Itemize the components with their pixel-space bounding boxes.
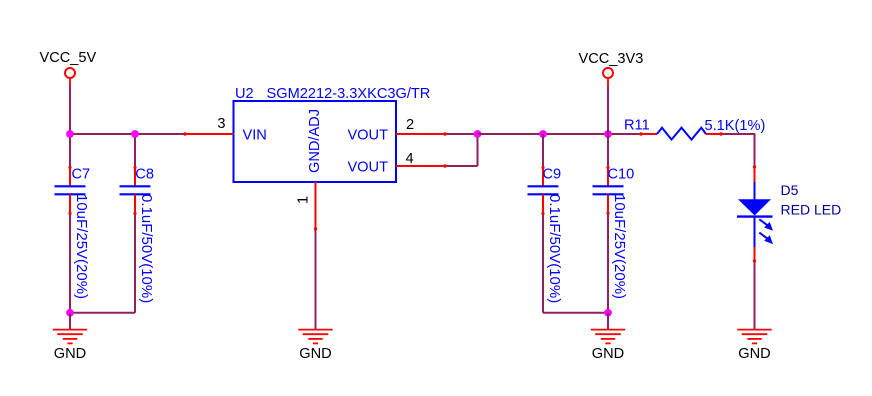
junction pin2/pin4: [474, 130, 482, 138]
svg-text:4: 4: [406, 151, 414, 167]
wire to left ground: [69, 313, 71, 330]
wire left rail to pin 3: [70, 133, 184, 135]
svg-text:VCC_3V3: VCC_3V3: [579, 51, 644, 67]
wire down to C9: [542, 134, 544, 166]
svg-text:VCC_5V: VCC_5V: [40, 50, 97, 66]
svg-text:10uF/25V(20%): 10uF/25V(20%): [611, 194, 628, 299]
wire C7 to ground rail: [69, 215, 71, 313]
ground GND far right: [737, 330, 771, 362]
wire left ground rail: [70, 312, 135, 314]
capacitor C8: [120, 166, 151, 215]
wire down to C10: [607, 134, 609, 166]
junction right rail / C10: [604, 130, 612, 138]
svg-text:C7: C7: [72, 167, 91, 183]
capacitor C7: [55, 166, 86, 215]
svg-text:10uF/25V(20%): 10uF/25V(20%): [73, 194, 90, 299]
svg-text:1: 1: [296, 196, 312, 204]
wire pin 2 to junction: [446, 133, 478, 135]
LED D5: [737, 165, 773, 262]
wire C10 to ground rail: [607, 215, 609, 313]
svg-text:GND/ADJ: GND/ADJ: [307, 109, 323, 173]
junction left ground rail: [66, 309, 74, 317]
pin 2 of U2: [396, 132, 447, 135]
power flag VCC_3V3: [579, 51, 644, 86]
ground GND left: [53, 330, 87, 362]
svg-text:RED LED: RED LED: [781, 201, 842, 217]
svg-text:GND: GND: [592, 346, 624, 362]
ground GND middle: [298, 330, 332, 362]
svg-text:GND: GND: [738, 346, 770, 362]
wire pin 4 loop vertical: [477, 134, 479, 166]
junction at left rail / C7: [66, 130, 74, 138]
wire VCC_3V3 drop: [607, 86, 609, 135]
wire down to C8: [134, 134, 136, 166]
wire right ground rail: [543, 312, 608, 314]
svg-text:2: 2: [406, 117, 414, 133]
svg-text:VOUT: VOUT: [347, 127, 388, 143]
wire corner down to LED: [754, 133, 756, 166]
svg-text:D5: D5: [781, 182, 799, 198]
svg-text:C8: C8: [135, 167, 154, 183]
svg-text:5.1K(1%): 5.1K(1%): [705, 118, 766, 134]
pin 1 of U2: [314, 182, 317, 231]
pin 3 of U2: [183, 132, 233, 135]
svg-text:VOUT: VOUT: [347, 159, 388, 175]
svg-text:0.1uF/50V(10%): 0.1uF/50V(10%): [546, 194, 563, 303]
capacitor C9: [528, 166, 559, 215]
svg-text:SGM2212-3.3XKC3G/TR: SGM2212-3.3XKC3G/TR: [267, 86, 431, 102]
wire right rail: [478, 133, 641, 135]
power flag VCC_5V: [40, 50, 97, 86]
resistor R11: [639, 128, 722, 140]
wire C9 to ground rail: [542, 215, 544, 313]
wire LED to ground: [754, 262, 756, 330]
wire VCC_5V drop: [69, 86, 71, 135]
svg-text:VIN: VIN: [243, 127, 267, 143]
svg-text:R11: R11: [624, 118, 650, 134]
svg-text:3: 3: [217, 116, 225, 132]
junction right ground rail: [604, 309, 612, 317]
junction right rail / C9: [539, 130, 547, 138]
regulator U2: [234, 86, 431, 182]
wire down to C7: [69, 134, 71, 166]
svg-text:GND: GND: [299, 346, 331, 362]
ground GND right: [591, 330, 625, 362]
wire C8 to ground rail: [134, 215, 136, 313]
capacitor C10: [593, 166, 624, 215]
wire resistor to corner: [722, 133, 755, 135]
svg-text:GND: GND: [54, 346, 86, 362]
wire pin 4 loop horizontal: [446, 165, 478, 167]
svg-text:0.1uF/50V(10%): 0.1uF/50V(10%): [138, 194, 155, 303]
svg-text:U2: U2: [235, 86, 254, 102]
wire pin 1 to ground: [315, 230, 317, 330]
pin 4 of U2: [396, 164, 447, 167]
wire to right ground: [607, 313, 609, 330]
svg-text:C9: C9: [543, 167, 562, 183]
junction at left rail / C8: [131, 130, 139, 138]
svg-text:C10: C10: [608, 167, 635, 183]
